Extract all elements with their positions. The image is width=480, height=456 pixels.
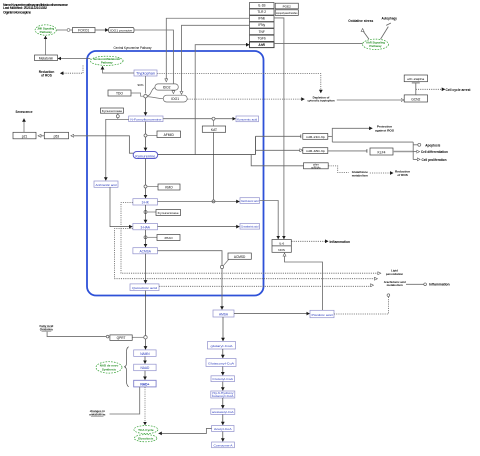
outcome bracket Apoptosis / Cell differentiation / Cell proliferation (413, 142, 420, 160)
wire Kynurenine to p53 (71, 136, 133, 153)
metabolite Anthranilic acid (94, 181, 118, 187)
svg-text:Tryptophan: Tryptophan (136, 72, 155, 76)
svg-text:Cell differentiation: Cell differentiation (421, 150, 448, 154)
wire acetoacetyl to Acetyl-CoA (222, 414, 224, 425)
label Reduction of ROS (left) (39, 70, 55, 78)
pathway oval JNK Signaling Pathway (35, 25, 56, 35)
node PGE2 (275, 3, 298, 9)
svg-text:Glycolysis: Glycolysis (138, 436, 154, 440)
svg-text:Kynureninase: Kynureninase (158, 211, 180, 215)
metabolite 3-HAA (133, 224, 158, 230)
wire 3-HK dotted to Lipid peroxidation (121, 203, 381, 274)
wire Serotonin/Melatonin Pathway to Melatonin (58, 58, 90, 60)
gene Kynureninase (upper) (101, 108, 124, 113)
wire Tryptophan down to junction (145, 76, 147, 94)
wire 3-HK to Xanthurenic acid (158, 201, 240, 203)
svg-text:TCA Cycle: TCA Cycle (138, 428, 154, 432)
svg-text:KLF4: KLF4 (378, 150, 386, 154)
svg-text:NAD+: NAD+ (140, 382, 149, 386)
svg-text:TGFb: TGFb (258, 37, 266, 41)
node Lipopolysaccharides (275, 10, 298, 16)
svg-text:Melatonin: Melatonin (39, 56, 53, 60)
wire AhR oval to Oxidative stress (363, 29, 369, 40)
wire IFNy to IDO1 (182, 25, 250, 94)
wire NAMN to NAAD (144, 357, 146, 364)
wire Depletion to GCN2 (337, 99, 404, 101)
wire dashed to Cell cycle arrest (416, 88, 445, 90)
wire Quinolinic down to NAMN (145, 291, 147, 350)
label Arachidonic acid metabolism (384, 280, 406, 287)
svg-text:Pathway: Pathway (369, 44, 382, 48)
svg-text:IFNb: IFNb (258, 17, 265, 21)
wire branch to miR-210-3p (bar) (256, 135, 301, 137)
gene AFMID (157, 131, 181, 138)
wire Serotonin oval to Reduction of ROS (dashed) (60, 65, 83, 73)
pathway oval AhR Signaling Pathway (363, 39, 389, 49)
svg-text:Inflammation: Inflammation (330, 240, 351, 244)
svg-text:IDO1 promoter: IDO1 promoter (110, 29, 132, 33)
wire AhR oval to Autophagy (T-bar) (381, 23, 391, 39)
svg-text:N-Formylkynurenine: N-Formylkynurenine (130, 117, 161, 121)
wire junction down to N-Formylkynurenine (145, 98, 147, 115)
metabolite Tryptophan (134, 70, 157, 76)
wire Melatonin to JNK (45, 36, 47, 55)
metabolite NAAD (134, 364, 156, 371)
svg-text:Cinnabarinic acid: Cinnabarinic acid (241, 225, 259, 229)
svg-text:Kynureninase: Kynureninase (102, 109, 123, 113)
wire NFK to Anthranilic acid (106, 119, 129, 180)
svg-text:of ROS: of ROS (41, 74, 52, 78)
svg-text:Picolinic acid: Picolinic acid (312, 313, 333, 317)
svg-text:metabolism: metabolism (352, 173, 368, 177)
svg-text:Synthesis: Synthesis (102, 367, 117, 371)
gene 3HAO (157, 235, 180, 241)
gene TDO (108, 90, 131, 96)
svg-text:TLR 2: TLR 2 (257, 10, 266, 14)
wire Acetyl-CoA to Coenzyme A (222, 432, 224, 442)
svg-text:AhR: AhR (258, 43, 265, 47)
gene KAT (202, 126, 225, 132)
catalysis circle KAT on NFK-KA wire (212, 117, 215, 120)
wire KAT down to 3HK-XA wire (213, 132, 215, 199)
metabolite Crotonyl-CoA (211, 376, 235, 382)
node Melatonin (35, 55, 58, 61)
wire 3-HK down to 3-HAA (145, 205, 147, 223)
metabolite Xanthurenic acid (240, 198, 260, 204)
svg-text:3-HAA: 3-HAA (141, 225, 151, 229)
svg-text:Quinolinic acid: Quinolinic acid (132, 286, 157, 290)
svg-text:Pathway: Pathway (40, 30, 53, 34)
svg-text:of ROS: of ROS (397, 173, 407, 177)
svg-text:3-HK: 3-HK (142, 201, 150, 205)
wire branch to miR-480-3p (open) (256, 149, 303, 151)
svg-text:Lipopolysaccharides: Lipopolysaccharides (276, 11, 298, 15)
wire TDO to junction (131, 93, 144, 96)
wire Kynurenine to AhR box (195, 45, 249, 155)
svg-text:IL-6: IL-6 (279, 241, 285, 245)
svg-text:Inflammation: Inflammation (429, 283, 450, 287)
wire IDO1 dashed to Depletion (187, 98, 304, 100)
metabolite Quinolinic acid (130, 284, 159, 291)
svg-text:against ROS: against ROS (375, 128, 394, 132)
wire other miRNAs dashed to Glutathione metabolism (328, 166, 348, 173)
gene QPRT (110, 335, 132, 341)
wire Kynurenine right trunk (158, 136, 256, 154)
gene FOXO1 (73, 28, 96, 33)
metabolite oval Kynurenine (133, 152, 158, 159)
svg-text:miRNAs: miRNAs (311, 165, 321, 169)
wire IFNb right to IL-6 box (274, 18, 284, 239)
label Lipid peroxidation (386, 269, 404, 277)
svg-text:metabolism: metabolism (387, 283, 403, 287)
catalysis circle 3HAO (144, 236, 157, 239)
svg-text:Central Kynurenine Pathway: Central Kynurenine Pathway (114, 46, 152, 50)
catalysis circle AFMID (144, 134, 157, 137)
wire IL-6 dashed to Inflammation (291, 240, 328, 242)
junction circle at tryptophan branch (144, 95, 147, 98)
wire KLF4 to outcome bracket (thick) (393, 151, 413, 153)
svg-text:NAAD: NAAD (140, 366, 150, 370)
gene other miRNAs (304, 163, 329, 170)
svg-text:TNF: TNF (259, 30, 265, 34)
metabolite Picolinic acid (310, 310, 334, 317)
svg-text:eIF-2alpha: eIF-2alpha (407, 77, 424, 81)
wire ACMSA down to Quinolinic acid (145, 254, 147, 283)
wire Tryptophan to Serotonin oval (103, 66, 135, 73)
svg-text:p53: p53 (54, 134, 60, 138)
gene miR-480-3p (303, 148, 328, 154)
wire Arachidonic to Inflammation (circle end) (406, 283, 426, 285)
metabolite (S)-3-Hydroxybutanoyl-CoA (211, 391, 235, 398)
catalysis circle ACMSD (220, 260, 228, 269)
svg-text:miR-480-3p: miR-480-3p (306, 149, 325, 153)
wire Glutathione dashed to Reduction of ROS (370, 172, 393, 174)
svg-text:Acetyl-CoA: Acetyl-CoA (214, 427, 232, 431)
wire ACMSA right to AMSA (158, 251, 223, 310)
wire Glutaconyl to Crotonyl (222, 367, 224, 376)
gene KLF4 (370, 148, 393, 155)
svg-text:AMSA: AMSA (219, 312, 229, 316)
svg-text:Xanthurenic acid: Xanthurenic acid (241, 199, 259, 203)
catalysis circle KMO (144, 185, 158, 188)
wire glutaryl to Glutaconyl (222, 349, 224, 358)
label Protection against ROS (375, 124, 394, 132)
wire Xanthurenic acid to IL-6 (260, 201, 279, 240)
wire NFK to Kynurenic acid (163, 118, 235, 120)
svg-text:FOXO1: FOXO1 (78, 29, 89, 33)
pathway oval NAD de novo Synthesis (96, 362, 122, 373)
svg-text:Cell proliferation: Cell proliferation (422, 158, 447, 162)
svg-text:IDO1: IDO1 (171, 97, 179, 101)
wire p21 to Senescence (23, 119, 25, 133)
wire miR-480 row to KLF (bar) (328, 150, 367, 152)
wire 3-HAA dotted to Arachidonic acid metabolism (115, 229, 378, 279)
cytokine stack boxes (250, 3, 275, 48)
label Depletion of cytosolic tryptophan (308, 95, 335, 102)
gene KMO (158, 184, 180, 190)
wire junction to IDO2 (147, 88, 155, 96)
svg-text:Apoptosis: Apoptosis (425, 143, 440, 147)
stacked node IL-6 / NOS (272, 240, 291, 253)
svg-text:KMO: KMO (165, 186, 173, 190)
wire 3-HAA down to ACMSA (145, 230, 147, 247)
svg-text:Organism: Homo sapiens: Organism: Homo sapiens (3, 11, 31, 15)
wire AMSA down to glutaryl-CoA (222, 317, 224, 341)
wire NAD+ dashed down to TCA Cycle (144, 387, 146, 425)
wire AMSA to Picolinic acid (234, 313, 310, 315)
wire IDO1 promoter to IDO1 (134, 30, 173, 93)
svg-text:IL-1B: IL-1B (258, 4, 266, 8)
wire IFNb to IDO2 (166, 18, 249, 81)
wire Anthranilic acid to 3-HAA (110, 187, 132, 226)
svg-text:NOS: NOS (278, 248, 285, 252)
svg-text:Last Modified: 20231122101352: Last Modified: 20231122101352 (3, 6, 47, 10)
wire Picolinic acid to NOS (open triangle) (285, 253, 323, 310)
gene ACMSD (228, 253, 251, 259)
svg-text:Senescence: Senescence (16, 110, 33, 114)
label Fatty Acid Oxidation (39, 324, 53, 331)
metabolite 3-HK (133, 199, 158, 205)
gene Kynureninase (lower) (156, 210, 181, 216)
metabolite NAMN (134, 350, 156, 357)
wire Quinolinic acid dashed to Arachidonic acid metabolism (159, 285, 373, 286)
metabolite Glutaconyl-CoA (206, 359, 236, 367)
wire NFK down to Kynurenine (145, 122, 147, 151)
wire Tryptophan dashed to Depletion of cytosolic tryptophan (157, 74, 321, 93)
svg-text:AFMID: AFMID (164, 133, 175, 137)
svg-text:QPRT: QPRT (117, 336, 126, 340)
label changes in metabolism (89, 409, 105, 416)
svg-text:NAMN: NAMN (140, 352, 150, 356)
svg-text:ACMSA: ACMSA (140, 249, 152, 253)
metabolite Coenzyme A (212, 442, 235, 448)
catalysis circle Kynureninase upper (116, 113, 119, 119)
brace NAD de novo synthesis (125, 347, 129, 387)
wire Picolinic dashed to Arachidonic (circle end) (334, 294, 388, 314)
wire JNK to FOXO1 (56, 29, 72, 32)
metabolite acetoacetyl-CoA (211, 409, 235, 415)
svg-text:Crotonyl-CoA: Crotonyl-CoA (212, 377, 233, 381)
svg-text:IFNy: IFNy (258, 23, 265, 27)
svg-text:Autophagy: Autophagy (381, 17, 397, 21)
metabolite AMSA (213, 310, 234, 317)
svg-text:p21: p21 (22, 134, 28, 138)
catalysis circle Kynureninase lower (144, 211, 156, 214)
metabolite N-Formylkynurenine (129, 116, 163, 122)
gene p21 (13, 132, 36, 139)
gene p53 (44, 132, 68, 139)
wire 3-HAA to Cinnabarinic acid (158, 226, 240, 228)
metabolite ACMSA (133, 248, 158, 254)
svg-text:Pathway: Pathway (101, 61, 113, 65)
svg-text:GCN2: GCN2 (411, 97, 420, 101)
svg-text:TDO: TDO (116, 92, 123, 96)
svg-text:Kynurenic acid: Kynurenic acid (237, 117, 257, 121)
svg-text:Anthranilic acid: Anthranilic acid (96, 183, 117, 187)
svg-text:metabolism: metabolism (89, 413, 105, 417)
gene eIF-2alpha (404, 75, 427, 82)
wire 3HB-CoA to acetoacetyl-CoA (222, 398, 224, 408)
node IDO1 promoter (109, 28, 134, 33)
header title text (3, 3, 68, 15)
metabolite Cinnabarinic acid (240, 224, 260, 230)
svg-text:Kynurenine: Kynurenine (135, 154, 155, 158)
wire Kynurenine down to 3-HK (145, 159, 147, 198)
svg-text:3HAO: 3HAO (164, 236, 173, 240)
metabolite Acetyl-CoA (212, 426, 234, 432)
metabolite NAD+ (134, 380, 156, 387)
wire FOXO1 to IDO1 promoter (95, 29, 108, 31)
wire miR-210-3p bracket to Protection against ROS (328, 128, 413, 142)
wire branch to other miRNAs (251, 155, 303, 166)
wire junction to IDO1 (147, 97, 163, 99)
label Glutathione metabolism (352, 170, 368, 177)
svg-text:Oxidative stress: Oxidative stress (348, 19, 373, 23)
pathway oval TCA Cycle (134, 426, 158, 434)
wire Fatty Acid Oxidation to QPRT (circle end) (47, 332, 109, 337)
pathway oval Serotonin/Melatonin Pathway (90, 56, 123, 65)
wire Acetyl-CoA to TCA Cycle (159, 428, 212, 433)
svg-text:peroxidation: peroxidation (386, 272, 404, 276)
svg-text:Coenzyme A: Coenzyme A (214, 443, 233, 447)
svg-text:glutaryl-CoA: glutaryl-CoA (211, 344, 234, 348)
svg-text:miR-210-3p: miR-210-3p (306, 135, 325, 139)
svg-text:ACMSD: ACMSD (234, 255, 246, 259)
metabolite Kynurenic acid (236, 116, 259, 122)
svg-text:butanoyl-CoA: butanoyl-CoA (212, 395, 234, 398)
svg-text:Glutaconyl-CoA: Glutaconyl-CoA (208, 361, 235, 365)
enzyme oval IDO1 (163, 95, 187, 102)
svg-text:cytosolic tryptophan: cytosolic tryptophan (308, 99, 335, 103)
label Reduction of ROS (right) (395, 170, 410, 178)
svg-text:IDO2: IDO2 (163, 85, 171, 89)
enzyme oval IDO2 (155, 84, 178, 90)
wire NAD+ to changes in metabolism (110, 387, 140, 414)
pathway oval Glycolysis (134, 435, 157, 442)
gene GCN2 (404, 95, 427, 102)
svg-text:90%: 90% (138, 83, 144, 87)
svg-text:PGE2: PGE2 (283, 5, 292, 9)
wire Crotonyl to 3-Hydroxybutanoyl-CoA (222, 382, 224, 391)
svg-text:Cell cycle arrest: Cell cycle arrest (446, 88, 472, 92)
metabolite glutaryl-CoA (208, 342, 236, 350)
svg-text:acetoacetyl-CoA: acetoacetyl-CoA (212, 410, 234, 414)
gene miR-210-3p (303, 134, 328, 140)
cytokine stack labels IL-1B TLR2 IFNb IFNy TNF TGFb AhR (257, 4, 266, 47)
catalysis circle QPRT (132, 336, 147, 339)
wire p53 to p21 (38, 135, 44, 137)
wire GCN2 to eIF-2alpha (T-bar) (412, 83, 420, 95)
wire AhR box to AhR Signaling oval (274, 42, 363, 44)
wire NAAD to NAD+ (144, 371, 146, 380)
wire KAT box to circle (213, 120, 215, 126)
container: Central Kynurenine Pathway (87, 46, 264, 296)
svg-text:KAT: KAT (211, 128, 217, 132)
